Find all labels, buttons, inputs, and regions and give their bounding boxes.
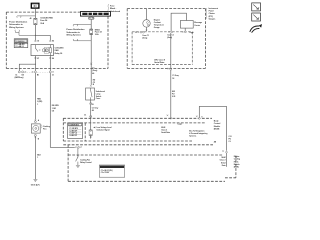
- wire: branch to connector C1-E4: [19, 64, 35, 71]
- svg-text:86: 86: [52, 58, 54, 60]
- svg-text:Block -: Block -: [110, 8, 117, 10]
- svg-text:Systems: Systems: [189, 135, 196, 138]
- svg-text:1: 1: [37, 157, 38, 159]
- svg-text:(NAT/Gray): (NAT/Gray): [15, 76, 24, 79]
- svg-text:FAN: FAN: [55, 49, 59, 52]
- connector pin at BCM top (lamp wire): [90, 116, 92, 118]
- svg-text:Instrument: Instrument: [209, 7, 219, 10]
- switch: cooling fan relay control driver: [75, 146, 79, 148]
- svg-text:COOLING FAN: COOLING FAN: [40, 16, 53, 19]
- power tag: HOT AT ALL TIMES: [81, 12, 111, 17]
- bus bracket to power distribution reference: [17, 16, 36, 18]
- svg-text:Power Distribution: Power Distribution: [66, 28, 85, 31]
- svg-text:C#: C#: [229, 141, 231, 143]
- svg-text:Light: Light: [190, 31, 195, 34]
- svg-text:Conn: Conn: [96, 98, 100, 100]
- connector table (relay terminals): [14, 39, 28, 48]
- connector at BCM top (serial data): [167, 115, 172, 119]
- connector Case C1 (Gray) pin B: [135, 31, 144, 34]
- svg-text:Gauge: Gauge: [154, 27, 161, 29]
- wire: fan feed and relay control runs: [34, 73, 36, 120]
- wire: bus node to relay pins 30/85: [35, 35, 50, 40]
- svg-text:Wiring Systems: Wiring Systems: [9, 26, 24, 29]
- svg-text:Center: Center: [194, 24, 200, 27]
- svg-text:0.8: 0.8: [52, 110, 54, 112]
- label: Power Distribution reference (center): [66, 28, 85, 36]
- svg-text:46: 46: [92, 72, 94, 75]
- svg-text:(BCM): (BCM): [214, 128, 220, 130]
- body control module BCM (dashed enclosure): [63, 118, 216, 145]
- page reference box (top navigation tag): [31, 3, 39, 8]
- viewer toolbar icons: [252, 3, 261, 21]
- wire: message center feeds: [171, 13, 186, 31]
- svg-text:Gauges: Gauges: [209, 18, 216, 20]
- module: Message Center: [180, 21, 193, 29]
- svg-text:Cooling: Cooling: [43, 126, 51, 128]
- cooling fan control module (dashed enclosure): [68, 145, 236, 181]
- svg-text:Serial Data: Serial Data: [154, 61, 165, 64]
- fuse F32 (ENG1 10A) with bus clip and wire: [90, 16, 92, 63]
- svg-text:COMMON B: COMMON B: [69, 125, 79, 127]
- svg-text:30: 30: [37, 40, 39, 42]
- svg-text:18: 18: [172, 78, 174, 80]
- connectors Case C1 (Gray) / Light: [168, 31, 186, 33]
- svg-text:E4: E4: [22, 74, 24, 77]
- svg-text:0.35: 0.35: [172, 96, 175, 98]
- svg-text:G101 (LF): G101 (LF): [31, 184, 40, 186]
- svg-text:Coolant: Coolant: [154, 21, 161, 24]
- svg-text:& Forward Integrating: & Forward Integrating: [189, 132, 207, 135]
- svg-text:Cluster: Cluster: [209, 12, 216, 15]
- IPC inner serial-data enclosure: [132, 32, 192, 65]
- svg-text:Bus To Navigation: Bus To Navigation: [189, 129, 204, 132]
- relay K36 (COOLING FAN relay): [31, 45, 53, 56]
- svg-text:10 A: 10 A: [95, 33, 99, 36]
- svg-text:Control: Control: [214, 122, 221, 125]
- underhood fuse block (dashed enclosure): [6, 12, 108, 68]
- svg-text:48: 48: [92, 109, 94, 112]
- svg-text:40: 40: [30, 17, 32, 20]
- label: Body Control Module (BCM): [214, 121, 221, 131]
- connector and labels: serial data at ECM module: [222, 150, 227, 153]
- svg-text:87: 87: [37, 58, 39, 60]
- gauge: Engine Coolant Temperature: [146, 9, 148, 20]
- label: serial wire id: [172, 91, 175, 98]
- switch S: Underhood Lamp Switch: [93, 80, 96, 87]
- svg-text:(Gray): (Gray): [167, 37, 172, 39]
- svg-text:85: 85: [52, 40, 54, 42]
- label: Fuse Block - Underhood: [107, 4, 110, 12]
- svg-text:C1: C1: [52, 74, 54, 76]
- svg-text:9: 9: [201, 116, 202, 118]
- bus bracket lower return to node: [15, 30, 20, 33]
- svg-text:Serial Data: Serial Data: [161, 131, 171, 134]
- svg-text:Underhood: Underhood: [110, 11, 121, 13]
- svg-text:RELAY CONN C2: RELAY CONN C2: [101, 166, 114, 169]
- ground G101: [33, 180, 37, 182]
- motor M: Cooling Fan: [31, 120, 40, 138]
- svg-text:C2 = 4B C4: C2 = 4B C4: [15, 45, 23, 48]
- instrument panel cluster IPC (dashed enclosure): [127, 9, 205, 69]
- connectors C1/B1 on fuse block boundary: [18, 71, 54, 73]
- ground (module internal): [76, 165, 80, 167]
- wire: serial data bus BCM to cooling fan module: [199, 106, 226, 150]
- svg-text:Indicator Signal: Indicator Signal: [97, 129, 111, 132]
- connector at IPC boundary: [168, 68, 172, 70]
- svg-text:Fuse 34: Fuse 34: [40, 19, 48, 22]
- wire: motor to ground G101: [34, 137, 36, 180]
- component: low voltage level indicator input: [90, 120, 92, 130]
- relay K36 top pin marks 30/85: [35, 40, 52, 42]
- wire: relay outputs down: [35, 56, 50, 71]
- svg-text:Temperature: Temperature: [154, 24, 165, 27]
- node: connector C1 (Gray) 46 crossing: [90, 63, 92, 65]
- connector table (BCM): [68, 123, 83, 138]
- connector table (relay conn): [99, 165, 124, 177]
- svg-text:C2 = 70 BK: C2 = 70 BK: [101, 172, 110, 174]
- label: COOLING FAN Relay 36: [55, 47, 64, 55]
- label: Power Distribution Schematics reference: [9, 20, 28, 29]
- svg-text:Relay Control: Relay Control: [80, 161, 92, 164]
- wire: feed from page tag into fuse F34: [34, 8, 36, 35]
- svg-text:30 A: 30 A: [40, 22, 44, 25]
- svg-text:ATC Case 8: ATC Case 8: [154, 58, 166, 61]
- svg-text:Schematics in: Schematics in: [66, 31, 80, 34]
- svg-text:COMMON C: COMMON C: [16, 41, 26, 43]
- svg-text:Logic: Logic: [178, 124, 183, 126]
- svg-text:B1: B1: [37, 74, 39, 76]
- wire: serial data IPC to BCM: [170, 33, 172, 119]
- svg-text:Schematics in: Schematics in: [9, 23, 23, 26]
- fuse F34 (COOLING FAN 30A): [34, 18, 37, 25]
- svg-text:Power Distribution: Power Distribution: [9, 20, 28, 23]
- label: ATC Case 8 Serial Data: [154, 58, 166, 64]
- svg-text:(ECM): (ECM): [234, 167, 239, 169]
- svg-text:Relay 36: Relay 36: [55, 53, 64, 55]
- svg-text:1: 1: [37, 104, 38, 106]
- svg-text:Wiring Systems: Wiring Systems: [66, 33, 81, 36]
- svg-text:COOLING: COOLING: [55, 47, 64, 49]
- label: Instrument Panel Cluster (IPC) Gauges: [205, 8, 208, 19]
- svg-text:C1: C1: [84, 114, 86, 116]
- relay K36 bottom pin marks 87/86: [35, 57, 52, 59]
- svg-text:(Gray): (Gray): [142, 37, 147, 39]
- labels: wire colors RED / DK GRN: [37, 99, 59, 113]
